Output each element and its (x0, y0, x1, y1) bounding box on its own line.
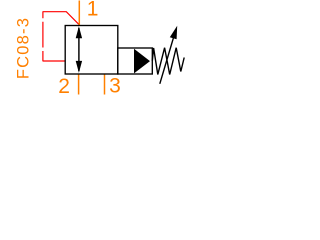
check valve poppet triangle (134, 49, 150, 74)
callout bracket top line (43, 12, 80, 25)
svg-text:2: 2 (58, 75, 70, 98)
flow control arrowhead up (76, 26, 82, 38)
port 2 line (78, 74, 80, 95)
check valve box (118, 48, 153, 74)
adjustment arrowhead (170, 26, 177, 39)
svg-text:1: 1 (87, 0, 99, 21)
adjustment arrow shaft (160, 37, 174, 84)
port 3 line (104, 74, 106, 95)
svg-text:3: 3 (109, 75, 121, 98)
flow control arrowhead down (76, 61, 82, 73)
svg-text:FC08-3: FC08-3 (14, 17, 32, 79)
spring (152, 48, 184, 75)
callout bracket bottom line (43, 60, 65, 62)
valve body box (65, 26, 118, 75)
callout bracket left dashed line (42, 12, 44, 62)
port 1 line (78, 1, 80, 26)
flow control double arrow shaft (78, 28, 80, 71)
